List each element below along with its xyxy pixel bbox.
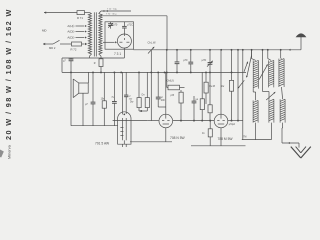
wire U4 screen up — [124, 72, 128, 114]
transformer core — [94, 12, 96, 56]
label R84 — [142, 94, 146, 96]
arrow terminal MD2 — [43, 43, 45, 45]
label C73 — [85, 103, 88, 106]
switch S4 — [259, 64, 268, 79]
svg-text:7 70 · 30 µ: 7 70 · 30 µ — [106, 14, 117, 16]
coil L6 — [253, 100, 258, 122]
wire R72 to coil — [82, 43, 88, 45]
wire tap L4 — [263, 50, 270, 99]
wire antenna lead A1 — [44, 12, 77, 14]
wire MD2 to R72 — [60, 43, 72, 45]
resistor R81 — [229, 50, 233, 121]
arrow ground lead — [288, 142, 290, 144]
capacitor C73 — [91, 72, 96, 125]
ground symbol — [291, 147, 311, 158]
wire L3 to L6 — [253, 89, 255, 101]
antenna tap A(D) 3 — [67, 36, 86, 40]
capacitor C74 — [112, 72, 117, 125]
switch S2 upper — [244, 62, 248, 72]
wire ground drop — [298, 143, 300, 148]
wire speaker bottom — [82, 93, 84, 126]
coil L8 — [280, 99, 285, 122]
coil L4 — [268, 50, 274, 88]
trimmer C71 — [122, 22, 127, 28]
svg-text:7 10 · 10µ: 7 10 · 10µ — [107, 8, 118, 10]
label U4 cap — [129, 95, 133, 100]
wire heater segment L — [113, 120, 148, 122]
label tube 791 — [95, 141, 110, 145]
label C70 — [113, 24, 118, 27]
svg-text:708 N 5W: 708 N 5W — [170, 136, 186, 140]
label ChLW — [148, 40, 157, 44]
wire v238 — [237, 50, 239, 121]
arrow terminal A1 — [44, 11, 46, 13]
coil L3 — [252, 50, 259, 89]
wire bus3 cathode line — [62, 71, 246, 73]
capacitor C76 trimmer — [207, 50, 213, 73]
wire v242 — [242, 50, 244, 140]
capacitor C77 — [192, 96, 197, 121]
shield box U1 — [105, 22, 134, 49]
label ChU — [166, 79, 174, 83]
label R74 — [94, 62, 96, 65]
resistor R74 — [99, 58, 103, 72]
resistor R83 — [137, 72, 141, 107]
label tube 786 — [218, 137, 234, 141]
wire U2 cathode — [165, 128, 167, 142]
wire L8 to ground — [282, 123, 299, 143]
antenna symbol — [296, 33, 307, 49]
svg-text:7M: 7M — [243, 135, 246, 138]
label R81 — [221, 86, 225, 88]
wire grid line B — [101, 15, 167, 17]
wire L7 down — [270, 123, 272, 140]
svg-text:MD: MD — [42, 29, 47, 33]
label C75 — [183, 59, 188, 62]
label tube 731 — [114, 52, 121, 56]
node bus3 junctions — [70, 71, 232, 73]
capacitor C74b — [175, 50, 180, 73]
label R79 — [209, 86, 216, 88]
coil L5 — [279, 50, 284, 87]
svg-text:A(H)⟩: A(H)⟩ — [67, 24, 74, 28]
svg-text:20 W / 98 W / 108 W / 162 W: 20 W / 98 W / 108 W / 162 W — [4, 8, 13, 140]
wire R83 R84 join — [139, 108, 147, 112]
svg-text:ChL.W.: ChL.W. — [148, 40, 157, 44]
label C72 — [63, 60, 66, 63]
svg-text:Minerva: Minerva — [6, 144, 11, 159]
node bus1 junctions — [166, 49, 282, 51]
capacitor C75 — [188, 50, 193, 73]
wire U3 right lead — [228, 120, 243, 122]
svg-text:MD 2: MD 2 — [49, 46, 56, 50]
label C77 — [196, 99, 199, 101]
antenna tap A(D) 2 — [67, 30, 86, 34]
capacitor C78 — [156, 72, 166, 107]
wire U2 anode — [165, 72, 167, 114]
label C76 — [202, 59, 207, 62]
svg-text:A(D)⟩: A(D)⟩ — [67, 30, 74, 34]
svg-text:788 M 5W: 788 M 5W — [218, 137, 234, 141]
wire secondary bottom — [99, 54, 101, 58]
trimmer C70 — [108, 22, 113, 29]
label tube 708 — [170, 136, 186, 140]
tube U3 786 — [214, 114, 228, 128]
wire bus1 HT line — [134, 49, 302, 51]
capacitor C72 — [69, 58, 74, 126]
transformer primary winding L1 — [88, 14, 91, 54]
label MD — [42, 29, 47, 33]
resistor R84 — [145, 72, 149, 107]
wire switch stub — [150, 50, 152, 121]
svg-text:µ'0f: µ'0f — [170, 95, 174, 97]
switch S5 — [266, 92, 275, 100]
resistor R79 — [204, 72, 208, 104]
arrow bus1 end — [289, 49, 291, 51]
wire line B down — [166, 16, 168, 50]
wire v167 — [166, 50, 168, 73]
wire U3 anode — [220, 50, 222, 114]
resistor R71 — [77, 11, 85, 20]
resistor R78 — [200, 72, 204, 120]
label MD2 — [49, 46, 56, 50]
label line A — [107, 8, 118, 10]
wire U3 grid lead — [173, 120, 214, 122]
label U3 pin values — [229, 124, 236, 126]
wire speaker top — [87, 72, 89, 83]
resistor R77 — [179, 90, 183, 121]
tube U1 731 — [117, 28, 131, 48]
resistor R82 — [208, 121, 212, 146]
wire U4 grid up — [121, 72, 123, 114]
svg-text:R 72: R 72 — [71, 48, 77, 52]
coil L7 — [269, 99, 274, 122]
wire heater line1 — [130, 141, 172, 143]
wire grid into U1 — [103, 41, 117, 43]
svg-text:µl'0µ2: µl'0µ2 — [229, 124, 236, 126]
resistor R80 — [208, 72, 212, 120]
svg-text:µ70: µ70 — [183, 59, 188, 62]
transformer secondary winding L2 — [99, 14, 102, 54]
switch S-MD2 — [53, 40, 60, 44]
wire heater segment A — [147, 120, 159, 122]
speaker LS — [73, 79, 88, 98]
wire oscillator line A — [99, 10, 131, 14]
wire R71 to transformer — [85, 13, 92, 14]
wire bottom bus right — [242, 139, 272, 141]
label C71 — [127, 24, 133, 27]
wire bus5 — [71, 125, 118, 127]
wire L5 to L8 — [282, 87, 283, 99]
label C74 — [111, 97, 114, 99]
resistor R72 — [71, 42, 82, 52]
svg-text:R 71: R 71 — [77, 16, 83, 20]
resistor R75 — [102, 72, 106, 125]
svg-text:µ7D: µ7D — [202, 59, 207, 62]
wire left edge — [61, 58, 63, 72]
switch S2 lower — [238, 80, 245, 88]
svg-text:A(D)⟩: A(D)⟩ — [67, 36, 74, 40]
switch S3 — [246, 50, 252, 78]
svg-text:791 5 AW: 791 5 AW — [95, 141, 110, 145]
label R83 — [130, 102, 134, 104]
switch S-LW — [148, 47, 155, 54]
wire primary bottom — [90, 54, 92, 58]
svg-text:7 3 1: 7 3 1 — [114, 52, 121, 56]
svg-text:µ70: µ70 — [113, 24, 118, 27]
wire U4 pins — [122, 144, 126, 147]
label line B — [106, 14, 117, 16]
scan mark corner — [0, 150, 4, 158]
tube U4 791 — [118, 112, 131, 144]
label C78 — [161, 97, 166, 102]
wire U1 cathode down — [123, 48, 125, 58]
wire heater line2 — [191, 145, 246, 147]
tube U2 708 — [159, 114, 173, 128]
wire U3 cathode — [220, 128, 222, 146]
svg-text:µ71C: µ71C — [127, 24, 133, 27]
label chassis model text — [4, 8, 13, 159]
wire bus2 — [62, 57, 124, 59]
wire ground lead MD2 — [43, 43, 53, 45]
label R75 — [101, 98, 106, 100]
svg-text:R: R — [94, 62, 96, 65]
svg-text:Dw: Dw — [130, 102, 134, 104]
label R77 — [170, 95, 174, 97]
antenna tap A(H) 1 — [67, 24, 86, 28]
resistor R76 horizontal — [167, 85, 185, 90]
svg-text:Ch(U): Ch(U) — [166, 79, 174, 83]
wire L6 down — [255, 123, 257, 140]
wire R76 left — [166, 72, 168, 87]
label R82 — [202, 133, 205, 135]
label 7M — [243, 135, 246, 138]
